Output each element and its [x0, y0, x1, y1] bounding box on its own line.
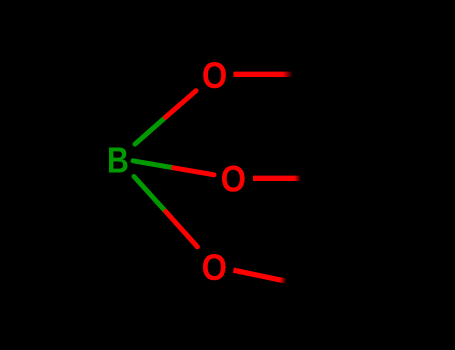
svg-text:O: O [202, 247, 227, 289]
svg-text:O: O [221, 159, 246, 201]
svg-text:B: B [107, 141, 129, 181]
svg-text:O: O [202, 55, 227, 97]
